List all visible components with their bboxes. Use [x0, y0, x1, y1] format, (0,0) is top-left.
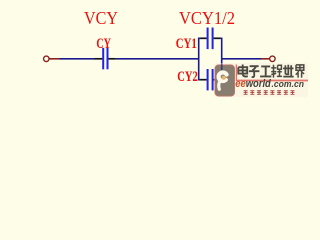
watermark logo C swirl — [219, 72, 227, 81]
port P1 pin — [49, 58, 59, 60]
port P2 pin — [261, 58, 269, 60]
capacitor CY2 pin 2 — [214, 79, 220, 81]
wire W3 — [222, 58, 262, 60]
capacitor CY1 pin 2 — [214, 37, 220, 39]
capacitor CY pin 2 — [108, 58, 115, 60]
wire W1 — [60, 58, 96, 60]
wire W2 — [116, 58, 200, 60]
watermark logo tail — [219, 81, 220, 89]
capacitor CY2 plate 1 — [207, 69, 209, 90]
watermark logo box — [215, 65, 235, 96]
watermark chinese title zi — [249, 66, 260, 77]
wire left rail — [199, 38, 201, 79]
capacitor CY1 plate 2 — [212, 28, 214, 50]
capacitor CY1 plate 1 — [207, 28, 209, 50]
watermark divider line — [235, 65, 237, 82]
port P1 circle — [44, 56, 50, 62]
watermark chinese title cheng — [271, 65, 282, 78]
svg-text:CY: CY — [96, 36, 111, 52]
svg-text:eeworld: eeworld — [235, 78, 271, 90]
watermark chinese title gong — [260, 66, 271, 76]
capacitor CY plate 1 — [102, 48, 104, 69]
watermark chinese title dian — [238, 65, 248, 77]
watermark chinese title shi — [283, 65, 294, 77]
watermark chinese title jie — [296, 65, 305, 78]
svg-text:VCY: VCY — [84, 8, 118, 28]
svg-text:VCY1/2: VCY1/2 — [179, 8, 235, 28]
watermark underline — [237, 80, 309, 82]
watermark background panel — [214, 63, 308, 97]
port P2 circle — [270, 56, 276, 62]
svg-text:CY2: CY2 — [177, 69, 198, 85]
watermark logo dot — [222, 76, 226, 80]
svg-text:.com.cn: .com.cn — [272, 79, 305, 89]
capacitor CY1 pin 1 — [201, 37, 207, 39]
capacitor CY2 pin 1 — [201, 79, 207, 81]
capacitor CY2 plate 2 — [212, 69, 214, 90]
capacitor CY plate 2 — [107, 48, 109, 69]
watermark logo wire showthrough — [221, 65, 223, 71]
capacitor CY pin 1 — [95, 58, 103, 60]
svg-text:CY1: CY1 — [176, 36, 197, 52]
watermark slogan chuangxin dianzi sheji zhijia — [244, 91, 295, 95]
wire right rail — [220, 38, 222, 79]
